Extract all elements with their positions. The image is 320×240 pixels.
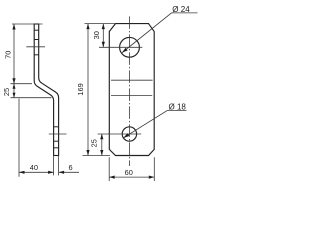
- leader line D18: [123, 111, 186, 138]
- dimension line 169: [87, 24, 89, 156]
- side view hole 24 centerline: [26, 46, 45, 48]
- side view strip edge extensions below: [54, 156, 59, 176]
- svg-text:Ø 24: Ø 24: [172, 5, 190, 14]
- extension line top right (169/30 dims): [85, 23, 116, 25]
- svg-text:25: 25: [2, 88, 11, 96]
- svg-text:40: 40: [30, 163, 38, 172]
- svg-text:70: 70: [3, 51, 12, 59]
- dimension line 25 left: [13, 84, 15, 98]
- dimension line 30: [102, 24, 104, 48]
- arrowheads 40 dim: [19, 171, 25, 174]
- arrowhead 6 dim: [59, 171, 65, 174]
- extension lines for 60 dim: [109, 157, 154, 181]
- front view vertical centerline: [128, 16, 130, 166]
- extension line for 40 (left, vertical): [18, 99, 20, 177]
- leader line D24: [122, 13, 198, 53]
- front view bend tangent line lower: [111, 95, 152, 97]
- side view lower strip right edge: [58, 98, 60, 156]
- arrowhead leader D18: [123, 133, 129, 138]
- side view hole 18 upper edge: [54, 126, 59, 128]
- svg-text:169: 169: [76, 83, 85, 95]
- front view bend tangent line upper: [111, 79, 153, 81]
- arrowheads 60 dim: [109, 176, 115, 179]
- svg-text:25: 25: [90, 139, 99, 147]
- dimension line 60: [109, 176, 154, 178]
- hole D18 horizontal centerline: [98, 133, 142, 135]
- arrowheads 169 dim: [86, 24, 89, 30]
- hole D24 horizontal centerline: [99, 46, 142, 48]
- side view top strip left edge + upper S-bend left line: [34, 24, 53, 100]
- svg-text:6: 6: [69, 163, 73, 172]
- dimension line 70: [13, 24, 15, 84]
- front view hole D18: [122, 127, 136, 141]
- svg-text:60: 60: [125, 168, 133, 177]
- front view plate outline with chamfered corners: [109, 24, 154, 156]
- dimension line 25 right: [101, 134, 103, 156]
- dimension line 6 tail: [59, 171, 79, 173]
- side view hole 18 centerline: [49, 133, 67, 135]
- side view bottom cap: [53, 155, 59, 157]
- side view top cap: [34, 23, 40, 25]
- side view hole 24 lower edge: [34, 54, 39, 56]
- side view chamfer line (bottom): [54, 147, 59, 149]
- extension line bottom right (169 dim): [83, 155, 111, 157]
- arrowheads 70 dim: [12, 24, 15, 30]
- side view hole 24 upper edge: [34, 39, 39, 41]
- svg-text:Ø 18: Ø 18: [169, 103, 187, 112]
- extension line at bend start (25 dim upper): [11, 83, 33, 85]
- side view lower strip left edge: [53, 100, 55, 155]
- arrowheads 25 left dim: [13, 84, 16, 89]
- side view hole 18 lower edge: [54, 140, 59, 142]
- front view hole D24: [120, 37, 140, 57]
- arrowheads 30 dim: [102, 24, 105, 30]
- extension line top left (70 dim): [12, 23, 43, 25]
- svg-text:30: 30: [92, 31, 101, 39]
- dimension line 40: [19, 171, 54, 173]
- extension line at bend end (25 dim lower): [11, 97, 52, 99]
- side view top strip right edge + S-bend right line: [39, 24, 59, 98]
- side view chamfer line (top): [34, 29, 39, 31]
- arrowhead leader D24: [122, 48, 128, 53]
- arrowheads 25 right dim: [100, 134, 103, 140]
